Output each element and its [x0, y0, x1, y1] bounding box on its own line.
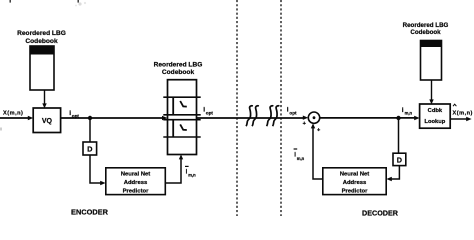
svg-text:Reordered LBG: Reordered LBG [154, 61, 203, 68]
inner cell divider (lower) [172, 120, 174, 137]
svg-text:Codebook: Codebook [410, 29, 441, 36]
wire VQ to codebook structure [61, 117, 163, 119]
svg-text:DECODER: DECODER [362, 209, 399, 216]
svg-text:Lookup: Lookup [424, 119, 445, 125]
svg-text:ENCODER: ENCODER [71, 207, 109, 216]
channel break symbol 1 [246, 106, 253, 126]
svg-text:Address: Address [343, 180, 367, 186]
wire lookup to output [450, 118, 467, 120]
neural net address predictor box (decoder) [323, 168, 386, 195]
svg-text:Neural Net: Neural Net [121, 172, 151, 178]
wire predictor to adder (decoder feedback) [313, 128, 323, 179]
svg-text:Reordered LBG: Reordered LBG [403, 22, 449, 29]
svg-text:D: D [87, 145, 93, 154]
label i-hat m,n (decoder) [294, 148, 298, 149]
svg-text:+: + [303, 121, 307, 127]
codebook cell tick line 2 [163, 114, 200, 116]
delay D box (decoder) [393, 153, 406, 165]
codebook symbol (encoder) [30, 46, 54, 90]
svg-text:Cdbk: Cdbk [428, 108, 443, 114]
junction node (encoder) [88, 116, 92, 120]
svg-text:Predictor: Predictor [123, 188, 150, 194]
svg-text:+: + [317, 127, 321, 133]
adder node [308, 112, 319, 123]
codebook cell tick line 3 [163, 119, 200, 121]
wire D to predictor (decoder) [391, 166, 399, 179]
scan speckle left edge [0, 128, 2, 131]
wire codebook to VQ [44, 90, 46, 104]
inner cell divider (upper) [172, 97, 174, 115]
svg-text:X(m,n): X(m,n) [453, 110, 473, 116]
junction node (decoder) [396, 116, 400, 120]
wire junction down to D [89, 118, 91, 142]
svg-text:m,n: m,n [297, 156, 305, 161]
svg-text:D: D [397, 155, 402, 164]
svg-text:Neural Net: Neural Net [340, 172, 370, 178]
svg-text:m,n: m,n [188, 172, 196, 177]
codeword glyph (upper cell) [180, 101, 187, 107]
codebook lookup box [420, 104, 451, 128]
svg-text:opt: opt [206, 111, 214, 116]
wire predictor up to codebook structure [165, 159, 181, 183]
codebook symbol (decoder) [421, 41, 442, 81]
wire structure to channel [197, 117, 304, 119]
svg-text:Address: Address [124, 180, 148, 186]
codebook cell tick line 1 [163, 96, 200, 98]
label X-hat(m,n) output [453, 104, 456, 106]
codebook cell tick line 4 [163, 136, 200, 138]
channel boundary dashed line (left) [236, 0, 238, 216]
svg-text:m,n: m,n [405, 111, 413, 116]
label i-hat m,n (encoder) [185, 166, 189, 167]
channel break symbol 2 [267, 106, 274, 126]
codeword glyph (lower cell) [180, 124, 187, 130]
svg-text:Reordered LBG: Reordered LBG [17, 30, 66, 37]
neural net address predictor box (encoder) [106, 168, 166, 195]
wire D to predictor (encoder) [90, 155, 101, 183]
scan speckle [78, 2, 81, 5]
channel boundary dashed line (right) [280, 0, 282, 216]
svg-text:Codebook: Codebook [162, 69, 195, 76]
wire junction down to D (decoder) [398, 118, 400, 153]
VQ box [33, 108, 60, 133]
svg-text:VQ: VQ [42, 118, 53, 125]
top page-crop tick marks [10, 0, 11, 3]
svg-text:X(m,n): X(m,n) [3, 111, 23, 117]
wire adder to lookup [320, 117, 416, 119]
svg-text:i: i [402, 107, 404, 114]
svg-text:Codebook: Codebook [25, 38, 58, 45]
svg-text:opt: opt [72, 113, 80, 118]
svg-text:opt: opt [289, 111, 297, 116]
arrowhead into adder [303, 116, 308, 120]
wire codebook to lookup [431, 80, 433, 100]
wire input to VQ [0, 117, 29, 119]
codebook structure outer box [168, 80, 197, 155]
svg-text:Predictor: Predictor [342, 188, 369, 194]
delay D box (encoder) [83, 142, 97, 155]
